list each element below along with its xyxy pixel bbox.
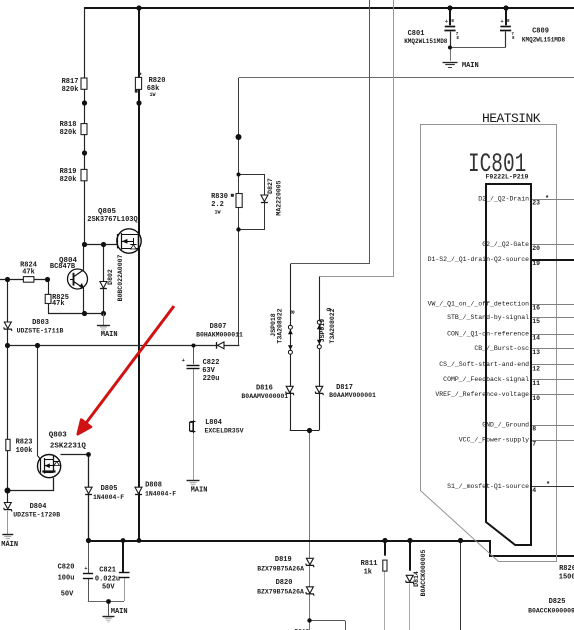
- svg-text:8: 8: [512, 37, 515, 41]
- svg-text:CS_/_Soft-start-and-end: CS_/_Soft-start-and-end: [439, 361, 529, 368]
- svg-text:R820: R820: [149, 77, 166, 85]
- svg-text:16: 16: [532, 305, 540, 312]
- svg-text:HEATSINK: HEATSINK: [482, 111, 541, 126]
- svg-text:L804: L804: [205, 419, 222, 427]
- svg-text:B0AAMV000001: B0AAMV000001: [329, 392, 376, 399]
- svg-text:D2_/_Q2-Drain: D2_/_Q2-Drain: [478, 196, 529, 203]
- svg-text:8: 8: [456, 37, 459, 41]
- svg-text:820k: 820k: [62, 86, 79, 94]
- svg-text:1k: 1k: [364, 568, 372, 576]
- svg-text:50V: 50V: [61, 590, 74, 598]
- svg-text:R817: R817: [62, 78, 79, 86]
- svg-text:BC847B: BC847B: [50, 263, 76, 271]
- svg-text:47k: 47k: [52, 300, 65, 308]
- svg-text:KMQ2WL151MD8: KMQ2WL151MD8: [404, 38, 448, 45]
- svg-text:C801: C801: [408, 30, 425, 38]
- svg-text:50V: 50V: [102, 583, 115, 591]
- svg-text:C822: C822: [203, 359, 220, 367]
- svg-text:BZX79B75A26A: BZX79B75A26A: [257, 565, 304, 572]
- svg-text:2SK2231Q: 2SK2231Q: [50, 442, 87, 450]
- svg-text:1N4004-F: 1N4004-F: [93, 494, 124, 501]
- svg-text:2SK3767L103Q: 2SK3767L103Q: [87, 216, 137, 224]
- svg-text:D825: D825: [549, 598, 566, 606]
- svg-text:R818: R818: [60, 121, 77, 129]
- svg-text:D816: D816: [256, 384, 273, 392]
- svg-text:KMQ2WL151MD8: KMQ2WL151MD8: [522, 36, 566, 43]
- svg-text:B0BC022A0007: B0BC022A0007: [117, 254, 124, 301]
- svg-text:D805: D805: [101, 485, 118, 493]
- svg-text:COMP_/_Feedback-signal: COMP_/_Feedback-signal: [443, 376, 529, 383]
- svg-text:BZX79B75A26A: BZX79B75A26A: [257, 588, 304, 595]
- svg-text:11: 11: [532, 380, 540, 387]
- svg-text:1500: 1500: [559, 574, 574, 582]
- svg-text:820k: 820k: [60, 129, 77, 137]
- svg-text:1W: 1W: [149, 92, 155, 98]
- svg-text:D819: D819: [275, 556, 292, 564]
- svg-text:EXCELDR35V: EXCELDR35V: [204, 427, 243, 434]
- svg-text:8: 8: [507, 18, 510, 24]
- svg-text:8: 8: [451, 18, 454, 24]
- svg-text:0.022u: 0.022u: [95, 575, 120, 583]
- svg-text:220u: 220u: [203, 375, 220, 383]
- svg-text:8: 8: [289, 310, 296, 314]
- svg-text:D1-S2_/_Q1-drain-Q2-source: D1-S2_/_Q1-drain-Q2-source: [428, 256, 530, 263]
- svg-text:T3A208022: T3A208022: [329, 308, 336, 343]
- svg-text:D807: D807: [210, 323, 227, 331]
- svg-text:Q805: Q805: [98, 208, 117, 216]
- svg-text:MAIN: MAIN: [101, 331, 118, 339]
- svg-text:B0AAMV000001: B0AAMV000001: [241, 393, 288, 400]
- svg-text:F9222L-P219: F9222L-P219: [486, 173, 529, 180]
- svg-text:R823: R823: [16, 438, 33, 446]
- svg-text:D804: D804: [30, 503, 47, 511]
- svg-text:GND_/_Ground: GND_/_Ground: [482, 422, 529, 429]
- svg-text:*: *: [545, 196, 549, 204]
- svg-text:C821: C821: [99, 566, 116, 574]
- svg-text:13: 13: [532, 349, 540, 356]
- svg-text:T3A208022: T3A208022: [277, 308, 284, 343]
- svg-text:VREF_/_Reference-voltage: VREF_/_Reference-voltage: [435, 391, 529, 398]
- svg-text:UDZSTE-1711B: UDZSTE-1711B: [17, 328, 64, 335]
- svg-text:B0ACCK000009: B0ACCK000009: [528, 607, 574, 614]
- svg-text:VW_/_Q1_on_/_off_detection: VW_/_Q1_on_/_off_detection: [428, 301, 530, 308]
- svg-text:D808: D808: [145, 482, 162, 490]
- svg-text:15: 15: [532, 318, 540, 325]
- svg-text:R811: R811: [361, 560, 378, 568]
- svg-text:7: 7: [532, 441, 536, 448]
- svg-text:CB_/_Burst-osc: CB_/_Burst-osc: [474, 345, 529, 352]
- svg-text:10: 10: [532, 395, 540, 402]
- svg-text:+: +: [182, 357, 186, 364]
- svg-text:VCC_/_Power-supply: VCC_/_Power-supply: [459, 437, 529, 444]
- svg-text:MA2220005: MA2220005: [276, 180, 283, 215]
- svg-text:C809: C809: [532, 27, 549, 35]
- svg-text:9: 9: [326, 307, 333, 311]
- svg-text:8: 8: [532, 426, 536, 433]
- svg-text:D827: D827: [267, 178, 274, 194]
- svg-text:CON_/_Q1-on-reference: CON_/_Q1-on-reference: [447, 331, 529, 338]
- svg-text:+: +: [445, 18, 449, 25]
- svg-text:STB_/_Stand-by-signal: STB_/_Stand-by-signal: [447, 314, 529, 321]
- svg-text:12: 12: [532, 365, 540, 372]
- svg-text:Q803: Q803: [49, 432, 68, 440]
- svg-text:G2_/_Q2-Gate: G2_/_Q2-Gate: [482, 241, 529, 248]
- svg-text:D817: D817: [336, 384, 353, 392]
- svg-text:B0HAKM000011: B0HAKM000011: [196, 331, 243, 338]
- svg-text:D803: D803: [32, 319, 49, 327]
- svg-text:14: 14: [532, 335, 540, 342]
- svg-text:JSP019: JSP019: [319, 319, 326, 343]
- svg-text:63V: 63V: [202, 367, 215, 375]
- svg-text:S1_/_mosfet-Q1-source: S1_/_mosfet-Q1-source: [447, 483, 529, 490]
- svg-text:1W: 1W: [214, 209, 220, 215]
- svg-text:+: +: [500, 18, 504, 25]
- svg-text:19: 19: [532, 260, 540, 267]
- svg-text:B0ACCK000005: B0ACCK000005: [420, 549, 427, 596]
- svg-text:MAIN: MAIN: [191, 487, 208, 495]
- svg-text:20: 20: [532, 245, 540, 252]
- svg-text:MAIN: MAIN: [1, 541, 18, 549]
- svg-text:C820: C820: [58, 563, 75, 571]
- svg-text:1N4004-F: 1N4004-F: [145, 490, 176, 497]
- svg-text:D802: D802: [107, 269, 114, 285]
- svg-text:D820: D820: [276, 579, 293, 587]
- svg-text:100u: 100u: [58, 574, 75, 582]
- svg-text:4: 4: [532, 487, 536, 494]
- svg-text:820k: 820k: [60, 176, 77, 184]
- svg-text:UDZSTE-1720B: UDZSTE-1720B: [13, 512, 60, 519]
- svg-text:23: 23: [532, 200, 540, 207]
- svg-text:47k: 47k: [22, 269, 35, 277]
- svg-text:MAIN: MAIN: [111, 608, 128, 616]
- svg-text:R826: R826: [559, 565, 574, 573]
- svg-text:100k: 100k: [16, 447, 33, 455]
- svg-text:+: +: [84, 565, 88, 572]
- svg-text:MAIN: MAIN: [462, 62, 479, 70]
- svg-text:R830: R830: [211, 193, 228, 201]
- svg-text:R819: R819: [60, 168, 77, 176]
- svg-text:*: *: [546, 482, 550, 490]
- svg-text:2.2: 2.2: [211, 201, 224, 209]
